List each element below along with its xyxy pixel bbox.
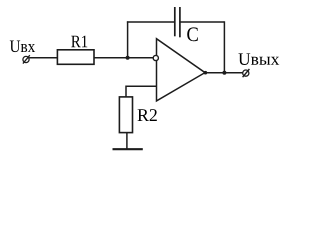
ground (113, 148, 143, 150)
capacitor C plate right (179, 7, 181, 37)
resistor R1 (57, 50, 94, 65)
op-amp U1 triangle (157, 39, 206, 101)
junction dot at op-amp apex (204, 71, 208, 75)
label R1 (71, 36, 87, 48)
wire R2 to ground (126, 133, 128, 149)
label R2 (138, 109, 157, 121)
label Uвх (10, 41, 35, 53)
resistor R2 (119, 97, 132, 133)
input terminal Uвх (23, 55, 30, 63)
wire top left to capacitor C (127, 21, 175, 23)
op-amp inverting input bubble (153, 55, 158, 60)
wire down from top right to output node B (223, 21, 225, 73)
junction node A (126, 56, 130, 60)
wire node A up to capacitor (127, 21, 129, 57)
junction node B (222, 71, 226, 75)
label C (187, 27, 198, 41)
wire input terminal to R1 (29, 57, 57, 59)
label Uвых (238, 53, 279, 65)
wire R1 to node A (94, 57, 154, 59)
wire non-inverting input to R2 (126, 86, 157, 97)
output terminal Uвых (243, 69, 250, 77)
capacitor C plate left (174, 7, 176, 36)
wire op-amp output to output terminal (205, 72, 243, 74)
wire capacitor to top right corner (180, 21, 225, 23)
